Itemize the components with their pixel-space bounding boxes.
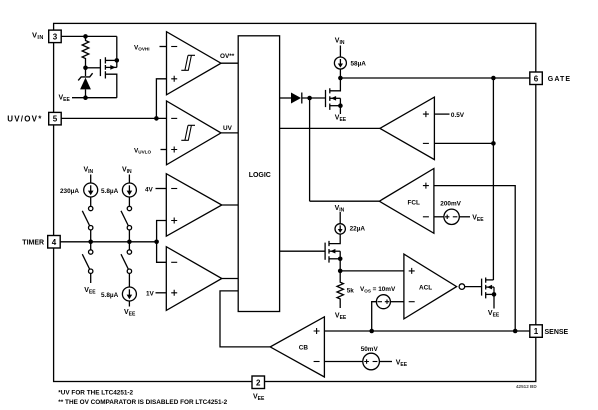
FCL plus sign bbox=[423, 183, 429, 189]
ACL output bubble bbox=[459, 284, 465, 290]
zener diode D1 bbox=[85, 68, 87, 76]
label VIN lead of 58uA source bbox=[339, 46, 341, 58]
node: diode cathode / gate / FCL junction bbox=[307, 96, 312, 101]
wire: I3 to VEE bbox=[128, 301, 130, 307]
svg-text:TIMER: TIMER bbox=[22, 240, 44, 247]
wire: UV/OV pin 5 to UV comparator minus input bbox=[61, 117, 166, 119]
LOGIC block U1 bbox=[238, 36, 279, 312]
node: sense rail junction at VOS branch bbox=[369, 329, 374, 334]
svg-text:2: 2 bbox=[256, 378, 261, 387]
wire: GATE rail to pin 6 bbox=[340, 77, 529, 79]
UV comparator minus sign bbox=[171, 117, 177, 119]
op-amp 4V timer comparator triangle bbox=[166, 174, 222, 237]
VOS source plus sign bbox=[385, 300, 389, 304]
svg-text:ACL: ACL bbox=[419, 284, 432, 291]
svg-text:5.8µA: 5.8µA bbox=[101, 188, 119, 195]
node: timer rail junction at S3/S4 bbox=[127, 240, 132, 245]
transistor Q4 (current limit MOSFET) bbox=[481, 279, 483, 296]
wire: I5 to Q3 drain bbox=[329, 234, 340, 244]
wire: ACL output to Q4 gate bbox=[465, 286, 482, 288]
pin 2 VEE bbox=[252, 376, 265, 389]
current source I5 arrowhead bbox=[338, 229, 343, 233]
1V comparator plus sign bbox=[171, 290, 177, 296]
diode D2 cathode bar bbox=[301, 93, 303, 104]
wire: SENSE rail (CB plus to pin 1) bbox=[324, 330, 529, 332]
current source I1 arrowhead bbox=[88, 191, 94, 196]
wire: VOVHI to OV comparator minus bbox=[160, 46, 167, 48]
svg-text:5k: 5k bbox=[347, 288, 355, 295]
wire: Q3 source node to ACL plus input bbox=[340, 270, 404, 272]
voltage source V1 200mV circle bbox=[444, 209, 459, 224]
node: Q2 source junction bbox=[338, 103, 343, 108]
wire: 1V comparator output to LOGIC bbox=[222, 278, 238, 280]
transistor Q1 arrow bbox=[110, 65, 115, 70]
wire: drain vertical of clamp MOSFET bbox=[116, 36, 118, 67]
wire: UV comparator output to LOGIC bbox=[221, 132, 238, 134]
op-amp UV comparator triangle bbox=[167, 101, 222, 165]
current source I5 22uA circle bbox=[335, 224, 345, 234]
wire: VIN pin 3 to clamp circuit bbox=[61, 35, 117, 37]
svg-text:UV/OV*: UV/OV* bbox=[7, 115, 42, 124]
wire: VEE rail of clamp circuit bbox=[72, 97, 117, 99]
svg-text:CB: CB bbox=[299, 345, 309, 352]
svg-text:** THE OV COMPARATOR IS DISABL: ** THE OV COMPARATOR IS DISABLED FOR LTC… bbox=[58, 399, 227, 406]
OV comparator hysteresis symbol bbox=[181, 55, 195, 70]
4V comparator plus sign bbox=[171, 218, 177, 224]
node: gate rail junction at x=493 bbox=[491, 76, 496, 81]
switch S4 (below timer rail) bbox=[128, 242, 130, 250]
wire: branch up to OV comparator plus input bbox=[156, 79, 166, 119]
pin 1 SENSE bbox=[530, 325, 543, 338]
op-amp ACL comparator triangle (points right) bbox=[404, 254, 457, 319]
diode D2 body bbox=[291, 93, 301, 104]
svg-text:6: 6 bbox=[534, 74, 539, 83]
CB plus sign bbox=[314, 328, 320, 334]
current source I2 arrow shaft bbox=[128, 185, 130, 191]
wire: OV comparator output to LOGIC bbox=[221, 62, 238, 64]
node: drain junction bbox=[115, 58, 120, 63]
transistor Q2 (gate pull-down) bbox=[325, 90, 327, 107]
voltage source V3 50mV circle bbox=[363, 353, 380, 370]
current source I5 arrow shaft bbox=[339, 225, 341, 229]
wire: diode cathode to gate node bbox=[302, 97, 326, 99]
resistor R1 (gate pull-up) bbox=[82, 36, 89, 67]
wire: 0.5V comparator minus to gate sense line bbox=[434, 142, 493, 144]
wire: 4V reference to comparator minus bbox=[156, 188, 167, 190]
transistor Q3 (ACL level shift) bbox=[324, 243, 326, 260]
node: Q3/5k/ACL+ junction bbox=[338, 269, 343, 274]
wire: CB minus to 50mV source bbox=[324, 361, 362, 363]
svg-text:FCL: FCL bbox=[408, 200, 421, 207]
node: UV/OV branch junction bbox=[154, 116, 159, 121]
FCL minus sign bbox=[423, 216, 429, 218]
svg-text:5: 5 bbox=[53, 115, 58, 124]
current source I1 230uA pull-up: top lead bbox=[90, 175, 92, 184]
current source I4 58uA circle bbox=[334, 57, 346, 69]
resistor R2 5k bbox=[337, 271, 343, 308]
op-amp OV comparator triangle bbox=[167, 32, 222, 95]
node: 58uA to gate rail junction bbox=[338, 76, 343, 81]
transistor Q1 (clamp MOSFET) bbox=[99, 59, 101, 76]
zener diode D1 body bbox=[80, 78, 91, 90]
wire: FCL output to gate node vertical bbox=[310, 200, 380, 202]
pin 3 VIN bbox=[49, 30, 62, 42]
node: Q4 source junction bbox=[492, 292, 497, 297]
switch S1 (above timer rail) bbox=[89, 206, 93, 210]
node: timer rail junction at S1/S2 bbox=[88, 240, 93, 245]
node: 0.5V minus junction bbox=[491, 141, 496, 146]
svg-text:GATE: GATE bbox=[548, 76, 571, 83]
pin 5 UV/OV* bbox=[49, 112, 62, 125]
transistor Q2 arrow bbox=[331, 96, 336, 101]
wire: I4 to gate drive node bbox=[339, 69, 341, 78]
svg-text:50mV: 50mV bbox=[361, 346, 379, 353]
UV comparator plus sign bbox=[171, 147, 177, 153]
wire: timer comparator input bracket bbox=[157, 221, 167, 263]
svg-text:SENSE: SENSE bbox=[545, 329, 569, 336]
transistor Q3 arrow bbox=[330, 249, 335, 254]
wire: VOS source to ACL minus bbox=[390, 301, 404, 303]
wire: VOS source to sense junction bbox=[372, 302, 377, 331]
node: timer rail junction at comparator bracket bbox=[154, 240, 159, 245]
wire: I2 to switch S3 bbox=[128, 197, 130, 206]
current source I3 5.8uA pull-down circle bbox=[122, 287, 136, 301]
svg-text:*UV FOR THE LTC4251-2: *UV FOR THE LTC4251-2 bbox=[58, 390, 133, 397]
voltage source V2 VOS 10mV circle bbox=[376, 295, 390, 309]
svg-text:42512 BD: 42512 BD bbox=[516, 384, 537, 389]
op-amp 0.5V gate comparator triangle (points left) bbox=[380, 97, 435, 160]
svg-text:1: 1 bbox=[534, 327, 539, 336]
op-amp FCL comparator triangle (points left) bbox=[379, 169, 434, 234]
wire: gate of clamp MOSFET bbox=[86, 67, 101, 69]
node: sense rail junction at FCL branch bbox=[513, 329, 518, 334]
op-amp 1V timer comparator triangle bbox=[166, 247, 222, 311]
svg-text:3: 3 bbox=[53, 32, 58, 41]
svg-text:LOGIC: LOGIC bbox=[249, 172, 271, 179]
svg-text:22µA: 22µA bbox=[350, 225, 366, 232]
wire: I1 to switch S1 bbox=[90, 197, 92, 206]
svg-text:5.8µA: 5.8µA bbox=[101, 292, 119, 299]
200mV source plus sign bbox=[445, 215, 449, 219]
border frame bbox=[54, 23, 536, 381]
transistor Q4 arrow bbox=[487, 285, 492, 290]
wire: FCL minus to 200mV source bbox=[434, 216, 444, 218]
switch S3 (above timer rail) bbox=[127, 206, 131, 210]
wire: 0.5V comparator plus to reference bbox=[434, 113, 449, 115]
op-amp CB comparator triangle (points left) bbox=[270, 317, 324, 377]
ACL plus sign bbox=[409, 268, 415, 274]
wire: LOGIC to Q3 gate bbox=[280, 250, 326, 252]
4V comparator minus sign bbox=[171, 188, 177, 190]
0.5V comparator plus sign bbox=[423, 111, 429, 117]
svg-text:230µA: 230µA bbox=[60, 188, 79, 195]
wire: gate node vertical (pin6 rail to ACL MOSFET drain) bbox=[492, 78, 494, 280]
wire: LOGIC to 0.5V comparator output bbox=[280, 127, 380, 129]
current source I2 arrowhead bbox=[127, 191, 133, 196]
current source I1 230uA circle bbox=[84, 183, 98, 197]
1V comparator minus sign bbox=[171, 261, 177, 263]
switch S2 (below timer rail, to VEE) bbox=[90, 242, 92, 250]
VOS source minus sign bbox=[378, 301, 383, 303]
wire: FCL plus input to sense rail bbox=[434, 186, 515, 331]
current source I4 arrow shaft bbox=[339, 59, 341, 64]
svg-text:4: 4 bbox=[52, 238, 57, 247]
label VIN lead of 22uA source bbox=[339, 212, 341, 224]
svg-text:1V: 1V bbox=[146, 291, 155, 298]
ACL minus sign bbox=[409, 301, 415, 303]
svg-text:UV: UV bbox=[223, 125, 233, 132]
svg-text:0.5V: 0.5V bbox=[451, 112, 465, 119]
200mV source minus sign bbox=[453, 216, 458, 218]
node: R1/zener/gate junction bbox=[83, 66, 88, 71]
svg-text:4V: 4V bbox=[145, 186, 154, 193]
svg-text:200mV: 200mV bbox=[440, 201, 461, 208]
node: zener anode on VEE rail bbox=[83, 95, 88, 100]
svg-text:OV**: OV** bbox=[220, 53, 235, 60]
wire: 200mV source to VEE bbox=[459, 216, 470, 218]
0.5V comparator minus sign bbox=[423, 142, 429, 144]
50mV source minus sign bbox=[373, 361, 378, 363]
wire: 4V comparator output to LOGIC bbox=[222, 204, 238, 206]
current source I4 arrowhead bbox=[338, 64, 343, 68]
current source I3 arrowhead bbox=[127, 295, 133, 300]
current source I2 5.8uA circle bbox=[122, 183, 136, 197]
wire: 1V reference to comparator plus bbox=[156, 292, 167, 294]
node: R1 top junction bbox=[83, 34, 88, 39]
wire: VUVLO to UV comparator plus bbox=[161, 149, 167, 151]
50mV source plus sign bbox=[364, 359, 369, 364]
current source I1 arrow shaft bbox=[90, 185, 92, 191]
wire: LOGIC to diode anode bbox=[280, 97, 291, 99]
wire: gate node down to FCL output bbox=[309, 98, 311, 201]
wire: TIMER pin 4 rail bbox=[60, 241, 156, 243]
svg-text:58µA: 58µA bbox=[351, 60, 367, 67]
CB minus sign bbox=[314, 361, 320, 363]
pin 4 TIMER bbox=[48, 236, 61, 249]
node: Q3 source junction bbox=[338, 257, 343, 262]
wire: 50mV source to VEE bbox=[379, 361, 392, 363]
current source I3 arrow shaft bbox=[128, 289, 130, 295]
OV comparator plus sign bbox=[171, 76, 177, 82]
current source I2 5.8uA pull-up: top lead bbox=[128, 175, 130, 184]
OV comparator minus sign bbox=[171, 46, 177, 48]
wire: CB output to LOGIC bbox=[220, 291, 270, 347]
pin 6 GATE bbox=[530, 72, 543, 85]
UV comparator hysteresis symbol bbox=[181, 125, 195, 140]
